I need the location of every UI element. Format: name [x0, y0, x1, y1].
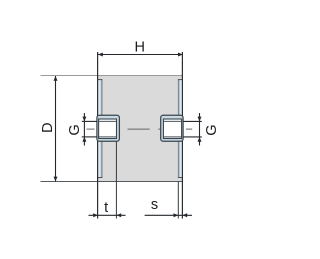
svg-text:t: t: [104, 200, 108, 216]
svg-text:G: G: [67, 124, 83, 135]
svg-text:D: D: [40, 122, 56, 132]
svg-text:G: G: [204, 124, 220, 135]
svg-text:s: s: [151, 197, 158, 213]
svg-text:H: H: [135, 40, 145, 56]
